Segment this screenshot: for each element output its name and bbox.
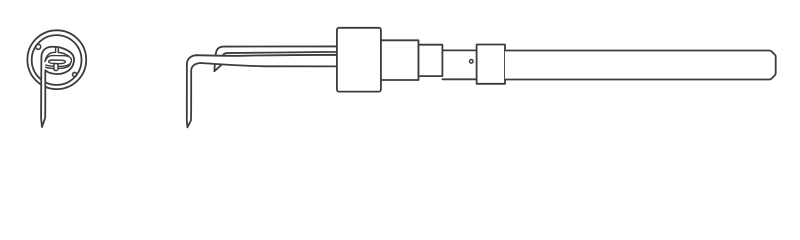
innermost hole of spiral	[49, 60, 66, 64]
rear wire with bend and tip (side view)	[214, 46, 337, 71]
front tapered tube with bent leg (side view)	[187, 55, 337, 128]
spiral inner line, right of end face	[58, 52, 68, 55]
wire end face ticks at apex	[56, 47, 59, 52]
end-view inner flange circle	[32, 35, 82, 85]
curled wire silhouette with tail (end view)	[41, 47, 74, 127]
tube between small section and collar	[442, 50, 476, 79]
flange hole lower-right	[73, 72, 77, 76]
medium section	[381, 40, 419, 80]
second spiral turn	[45, 56, 71, 67]
small section	[419, 45, 443, 76]
spiral inner line, left of end face	[45, 52, 56, 61]
end-view outer flange circle	[27, 30, 86, 89]
long handle tube with chamfered end	[505, 51, 776, 80]
flange hole upper-left	[36, 44, 41, 49]
collar	[477, 45, 505, 84]
big block (side view housing)	[337, 28, 381, 92]
wire inner end tab (end view)	[54, 64, 58, 71]
vent hole on tube	[470, 60, 474, 64]
bottom inner line of outer turn	[46, 64, 71, 69]
